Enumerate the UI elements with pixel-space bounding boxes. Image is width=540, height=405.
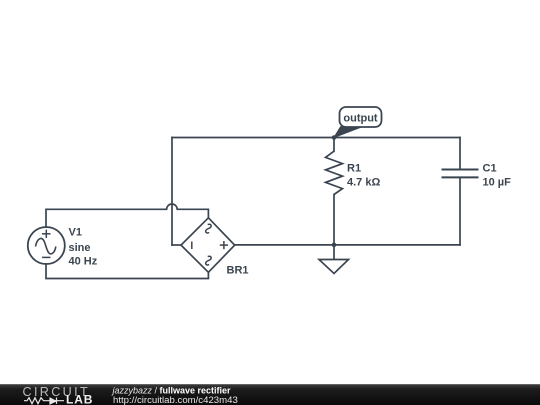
svg-text:BR1: BR1 xyxy=(227,264,249,276)
wire: left vertical from top rail down to BR1 minus level xyxy=(171,138,173,246)
svg-text:10 µF: 10 µF xyxy=(483,176,512,188)
svg-text:C1: C1 xyxy=(483,162,497,174)
svg-text:sine: sine xyxy=(69,242,91,254)
voltage source V1 xyxy=(28,227,65,264)
wire: C1 bottom plate to bottom rail xyxy=(459,178,461,245)
svg-text:R1: R1 xyxy=(347,162,361,174)
node: output junction dot xyxy=(332,135,337,140)
wire: BR1 plus vertex to bottom rail and C1 bottom xyxy=(235,244,460,246)
CircuitLab logo: resistor+diode squiggle xyxy=(24,398,64,404)
wire: V1 top terminal to BR1 AC top vertex, hop over vertical wire xyxy=(46,204,208,227)
svg-text:4.7 kΩ: 4.7 kΩ xyxy=(347,176,380,188)
capacitor C1 plates xyxy=(442,170,479,178)
V1 sine waveform xyxy=(36,238,56,253)
svg-text:output: output xyxy=(343,112,378,124)
svg-text:LAB: LAB xyxy=(66,392,93,405)
V1 plus mark xyxy=(42,230,51,238)
footer bar xyxy=(0,384,540,405)
BR1 minus mark (rotated, vertical bar) xyxy=(191,242,193,250)
wire: output node down to resistor R1 xyxy=(333,138,335,152)
BR1 plus mark xyxy=(220,241,228,249)
wire: right vertical from top rail to C1 top plate xyxy=(459,138,461,170)
svg-text:40 Hz: 40 Hz xyxy=(69,256,98,268)
bridge rectifier BR1 xyxy=(181,218,235,272)
wire: V1 bottom terminal to BR1 AC bottom vertex xyxy=(46,264,208,279)
svg-text:V1: V1 xyxy=(69,227,82,239)
wire: stub into BR1 left (-) vertex xyxy=(172,244,181,246)
V1 minus mark xyxy=(42,256,51,258)
ground symbol xyxy=(319,245,349,274)
BR1 AC mark (~) bottom, rotated xyxy=(206,256,212,265)
node: ground junction dot xyxy=(332,243,337,248)
resistor R1 zigzag xyxy=(326,151,343,194)
BR1 AC mark (~) top, rotated xyxy=(206,224,212,233)
wire: top rail from left corner to C1 branch xyxy=(172,137,460,139)
wire: R1 bottom to bottom rail xyxy=(333,195,335,245)
svg-text:http://circuitlab.com/c423m43: http://circuitlab.com/c423m43 xyxy=(113,395,238,405)
net label "output" callout xyxy=(334,107,382,138)
